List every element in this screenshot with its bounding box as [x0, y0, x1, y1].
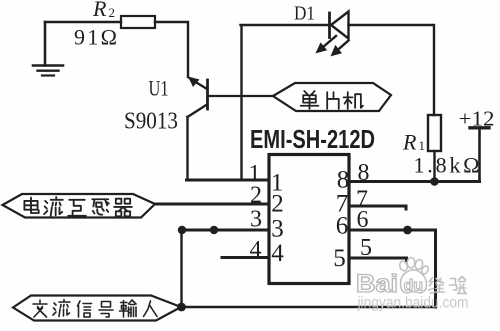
wire pin 6 to bottom [350, 230, 436, 307]
wire bottom horizontal [181, 306, 436, 309]
svg-text:2: 2 [109, 5, 116, 20]
node AC signal input hexagon 交流信号输入 [13, 296, 181, 321]
svg-text:EMI-SH-212D: EMI-SH-212D [250, 124, 375, 154]
wire AC input vertical [180, 230, 182, 307]
svg-text:6: 6 [357, 207, 369, 233]
svg-text:91Ω: 91Ω [74, 25, 117, 50]
svg-text:1.8kΩ: 1.8kΩ [414, 153, 480, 178]
svg-text:3: 3 [271, 216, 284, 243]
LED D1 [317, 12, 349, 56]
svg-text:1: 1 [419, 138, 426, 153]
svg-text:3: 3 [250, 207, 262, 233]
svg-text:5: 5 [360, 235, 372, 261]
svg-text:6: 6 [336, 213, 349, 240]
watermark jing-yan characters [429, 277, 467, 294]
label text jiao-liu-xin-hao-shu-ru (AC signal input) [33, 300, 157, 318]
wire pin 7 stub [350, 206, 406, 209]
op-amp U2 EMI-SH-212D body [269, 155, 349, 284]
wire R2 to collector corner [155, 22, 188, 77]
label text dian-liu-hu-gan-qi (current transformer) [24, 197, 131, 216]
wire emitter down to pin1 [186, 117, 188, 179]
wire pin 2 from transformer hexagon [155, 203, 268, 206]
wire pin 1 [187, 179, 269, 182]
svg-text:+12: +12 [459, 107, 495, 131]
wire LED to right corner [349, 25, 435, 115]
svg-text:U1: U1 [149, 76, 169, 101]
svg-text:jingyan.baidu.com: jingyan.baidu.com [357, 295, 469, 312]
ground [33, 22, 63, 76]
node dot bottom junction [177, 303, 186, 312]
resistor R1 [428, 115, 441, 151]
svg-text:S9013: S9013 [124, 109, 178, 135]
svg-text:4: 4 [271, 240, 284, 267]
wire pin8 to +12 [350, 180, 480, 183]
resistor R2 [121, 16, 155, 28]
svg-text:2: 2 [250, 183, 262, 209]
node junction R1/pin8/+12 [430, 177, 439, 186]
wire pin 4 stub [222, 256, 268, 259]
watermark paw icon [399, 258, 430, 293]
svg-text:4: 4 [250, 237, 262, 263]
svg-text:8: 8 [358, 160, 370, 186]
wire base to MCU hexagon [208, 95, 274, 97]
wire top to LED anode-side [241, 24, 330, 26]
node dot on pin3 left [178, 226, 186, 234]
wire pin 5 stub [350, 258, 407, 262]
svg-text:8: 8 [337, 167, 350, 194]
node MCU hexagon 单片机 [273, 83, 391, 111]
svg-text:R: R [402, 130, 417, 155]
node dot on pin6 [403, 226, 412, 235]
+12 supply terminal [470, 128, 489, 182]
wire pin 3 [182, 229, 269, 232]
transistor U1 S9013 [188, 77, 208, 118]
wire R1 bottom to junction [433, 151, 435, 182]
wire loop left vertical [240, 26, 242, 179]
wire ground to R2 [45, 21, 121, 23]
svg-text:du: du [404, 278, 424, 295]
node dot on pin3 mid [210, 226, 218, 234]
node current transformer hexagon 电流互感器 [3, 194, 156, 218]
svg-text:2: 2 [271, 191, 284, 218]
svg-text:D1: D1 [294, 3, 315, 25]
label text dan-pian-ji (MCU) [301, 91, 363, 109]
svg-text:R: R [92, 0, 107, 21]
svg-text:5: 5 [333, 245, 346, 272]
watermark Baidu logo [356, 258, 469, 312]
